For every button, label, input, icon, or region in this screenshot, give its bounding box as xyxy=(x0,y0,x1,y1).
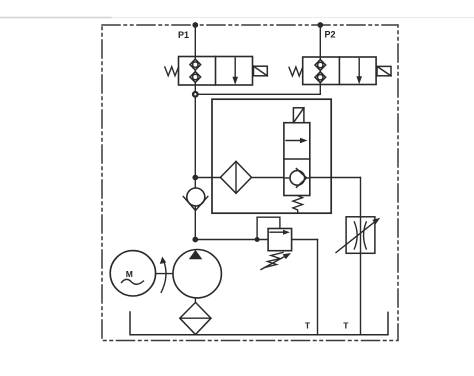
node J3 xyxy=(192,237,198,243)
wire pump discharge branch xyxy=(195,239,317,241)
node P2 xyxy=(317,22,323,28)
check valve C1 xyxy=(183,188,208,211)
U1 arrow (upper square) xyxy=(286,138,308,143)
U1 flow line through lower square xyxy=(284,177,310,179)
node J4 xyxy=(255,237,260,242)
FC1 restriction arcs xyxy=(354,222,366,249)
wire block flow line xyxy=(195,177,360,179)
V2 arrow (closed position) xyxy=(356,59,362,85)
V1 check poppet lower xyxy=(190,72,201,83)
motor M1 xyxy=(110,251,155,296)
node J1 ring xyxy=(193,92,198,97)
solenoid valve V1 body xyxy=(179,57,253,86)
wire relief drain to tank xyxy=(317,240,319,335)
relief valve R1 pilot loop xyxy=(257,217,280,239)
V1 spring xyxy=(165,67,179,76)
rotation arrow xyxy=(160,257,166,293)
unloading valve U1 body xyxy=(284,123,310,196)
node J2 xyxy=(192,175,198,181)
node P1 xyxy=(192,22,198,28)
pump P1.1 xyxy=(173,250,221,298)
V2 solenoid coil xyxy=(377,66,391,75)
FC1 adjust arrow xyxy=(336,218,380,253)
V1 check poppet upper xyxy=(190,59,201,70)
R1 adjustable spring xyxy=(261,253,291,270)
manifold block outline xyxy=(212,99,331,213)
V2 check poppet lower xyxy=(315,72,326,83)
svg-text:P1: P1 xyxy=(178,30,189,40)
wire V1-V2 bottom link xyxy=(195,93,320,95)
wire throttle drop line xyxy=(360,178,362,335)
pressure filter F1 xyxy=(220,161,251,193)
motor-pump shaft xyxy=(156,273,173,275)
wire P1 riser xyxy=(194,25,196,57)
V1 solenoid coil xyxy=(254,66,268,76)
svg-text:T: T xyxy=(305,321,311,331)
U1 solenoid coil xyxy=(293,108,304,123)
solenoid valve V2 body xyxy=(303,57,376,85)
tank xyxy=(130,312,388,335)
U1 check valve xyxy=(290,169,307,188)
wire pump suction xyxy=(194,298,196,303)
R1 arrow xyxy=(270,230,290,235)
svg-text:T: T xyxy=(343,321,349,331)
V2 spring xyxy=(289,67,303,76)
suction filter F2 xyxy=(180,302,211,334)
relief valve R1 body xyxy=(268,229,292,251)
faint top rule xyxy=(0,17,112,19)
svg-text:M: M xyxy=(126,269,133,279)
wire main pressure line xyxy=(194,94,196,239)
flow control valve FC1 body xyxy=(346,217,375,254)
wire V2 bottom drop xyxy=(319,85,321,94)
wire V1 bottom drop xyxy=(194,85,196,94)
enclosure boundary (dash-dot) xyxy=(102,25,398,341)
U1 spring xyxy=(293,196,303,213)
V2 check poppet upper xyxy=(315,60,326,71)
V1 arrow (closed position) xyxy=(232,58,238,85)
wire P2 riser xyxy=(319,25,321,57)
svg-text:P2: P2 xyxy=(324,30,335,40)
